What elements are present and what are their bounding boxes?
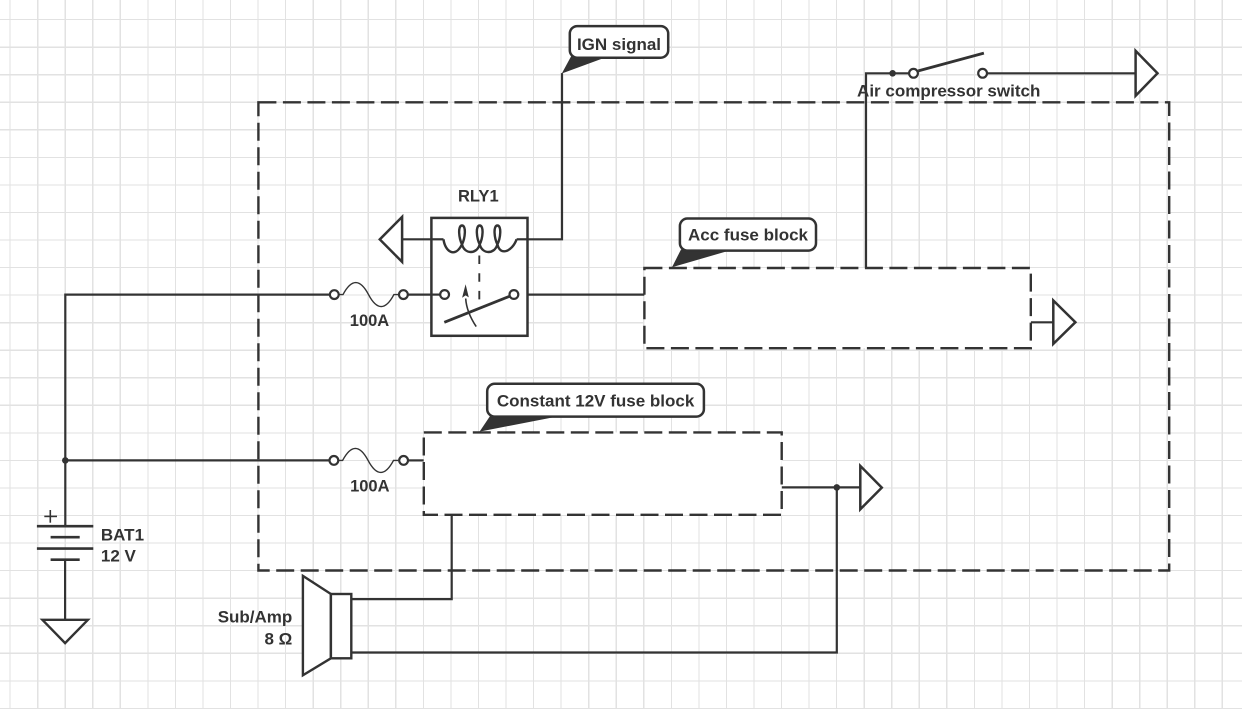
- relay actuation arrow shaft: [466, 299, 477, 327]
- relay switch blade: [444, 296, 509, 322]
- wire: constant block output: [782, 486, 860, 488]
- svg-text:Sub/Amp: Sub/Amp: [218, 608, 293, 627]
- svg-text:Constant 12V fuse block: Constant 12V fuse block: [497, 391, 695, 410]
- relay coil terminal pin right: [517, 238, 528, 240]
- svg-text:8 Ω: 8 Ω: [264, 629, 292, 648]
- node junction at constant output: [834, 484, 841, 491]
- svg-text:IGN signal: IGN signal: [577, 35, 661, 54]
- IGN signal callout: [562, 57, 608, 74]
- wire: speaker positive up to constant block: [351, 515, 451, 599]
- relay actuation arrow head: [462, 284, 469, 297]
- fuse F1 100A: [330, 283, 408, 307]
- relay coil terminal pin left: [431, 238, 443, 240]
- svg-text:100A: 100A: [350, 478, 390, 496]
- relay switch contact right: [510, 290, 519, 299]
- air compressor switch SW1 blade: [918, 53, 984, 71]
- Constant 12V fuse block callout: [480, 416, 563, 432]
- speaker SP1 cone: [303, 576, 331, 675]
- wire: lower feed to constant fuse block: [65, 459, 329, 461]
- ground symbol: [42, 620, 88, 643]
- svg-text:100A: 100A: [350, 312, 390, 330]
- node junction at air compressor switch: [889, 70, 896, 77]
- wire: IGN signal drop to relay coil: [517, 73, 562, 239]
- relay actuator dashed link: [478, 256, 480, 300]
- battery plus sign: [44, 510, 57, 523]
- wire: air switch to right arrow: [987, 72, 1135, 74]
- battery BAT1: [37, 526, 93, 620]
- relay coil L1: [444, 226, 517, 253]
- air compressor switch SW1 contacts: [909, 69, 918, 78]
- fuse F2 100A: [330, 448, 409, 472]
- arrow connector at constant block output: [860, 466, 882, 509]
- wire: constant output down to speaker negative: [351, 487, 837, 652]
- relay switch contact left: [431, 294, 440, 296]
- svg-text:Acc fuse block: Acc fuse block: [688, 226, 809, 245]
- svg-text:BAT1: BAT1: [101, 526, 144, 545]
- wire: upper fuse to relay: [408, 294, 440, 296]
- svg-text:Air compressor switch: Air compressor switch: [857, 81, 1040, 100]
- svg-text:RLY1: RLY1: [458, 188, 499, 206]
- arrow connector at relay coil (points left): [380, 217, 402, 262]
- wire: battery vertical bus: [65, 295, 329, 527]
- svg-text:12 V: 12 V: [101, 547, 137, 566]
- node junction on battery bus: [62, 457, 69, 464]
- wire: lower fuse to constant block: [408, 459, 424, 461]
- Constant 12V fuse block dashed box: [424, 432, 782, 514]
- arrow connector right of air switch: [1136, 51, 1158, 96]
- relay RLY1 body: [431, 218, 527, 336]
- wire: relay to acc fuse block: [519, 294, 645, 296]
- outer dashed boundary rectangle: [258, 102, 1169, 570]
- wire: relay coil to left arrow: [403, 238, 444, 240]
- Acc fuse block dashed box: [644, 268, 1030, 348]
- arrow connector at acc block output: [1053, 301, 1075, 344]
- speaker SP1 body: [331, 594, 351, 658]
- wire: acc block output: [1031, 321, 1054, 323]
- wire: air compressor switch drop to acc block: [866, 73, 909, 268]
- Acc fuse block callout: [672, 250, 733, 268]
